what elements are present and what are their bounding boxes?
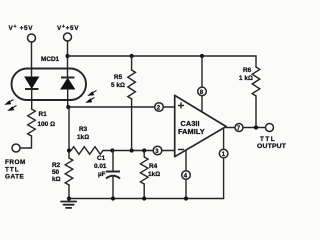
svg-text:R3: R3 bbox=[79, 126, 88, 133]
pin 8 bbox=[198, 87, 207, 96]
svg-text:GATE: GATE bbox=[5, 174, 25, 181]
svg-text:100 Ω: 100 Ω bbox=[38, 121, 55, 128]
pin 7 bbox=[235, 124, 243, 133]
svg-text:OUTPUT: OUTPUT bbox=[257, 143, 287, 150]
supply terminal V+ +5V (right) bbox=[57, 24, 79, 41]
pin 2 bbox=[155, 103, 164, 112]
node: R5 top rail junction bbox=[130, 54, 134, 58]
pin 7 output wire bbox=[226, 127, 265, 129]
pin 4 wire bbox=[185, 150, 187, 198]
node: R3 / C1 junction bbox=[110, 148, 114, 152]
resistor R2 bbox=[52, 158, 73, 185]
svg-text:MCD1: MCD1 bbox=[41, 56, 60, 63]
resistor R5 bbox=[111, 56, 135, 151]
pin 1 bbox=[219, 149, 228, 158]
ground bbox=[61, 199, 76, 208]
svg-text:V+ +5V: V+ +5V bbox=[9, 24, 34, 32]
resistor R6 bbox=[239, 67, 260, 128]
capacitor C1 bbox=[94, 151, 120, 199]
svg-text:0.01: 0.01 bbox=[94, 163, 107, 170]
node: R3 left junction bbox=[67, 148, 71, 152]
node: R4 bottom junction bbox=[142, 196, 146, 200]
pin 4 bbox=[182, 171, 191, 180]
supply terminal V+ +5V (left) bbox=[9, 24, 36, 42]
wire: R3 right lead to pin 3 line bbox=[103, 150, 112, 152]
wire: R2 bottom to ground rail bbox=[68, 185, 70, 199]
svg-text:R1: R1 bbox=[39, 111, 48, 118]
svg-text:C1: C1 bbox=[97, 155, 106, 162]
resistor R3 bbox=[71, 126, 103, 154]
node: photodiode / pin 2 junction bbox=[66, 105, 70, 109]
light arrows (right of package) bbox=[85, 91, 96, 103]
svg-text:50: 50 bbox=[52, 169, 60, 176]
input terminal FROM TTL GATE bbox=[5, 144, 26, 181]
svg-text:R5: R5 bbox=[114, 74, 123, 81]
wire: pin 3 line from C1 node to comparator bbox=[112, 150, 174, 152]
wire: right V+ terminal down to top rail junction and photodiode cathode bbox=[67, 41, 69, 72]
pin 3 bbox=[153, 146, 162, 155]
node: R2 / ground junction bbox=[67, 196, 71, 200]
light emission arrows (left of package) bbox=[4, 100, 16, 111]
svg-text:FAMILY: FAMILY bbox=[178, 127, 205, 136]
wire: top V+ rail to R6 bbox=[68, 56, 257, 67]
node: pin 4 bottom junction bbox=[184, 196, 188, 200]
svg-text:V++5V: V++5V bbox=[57, 24, 79, 32]
resistor R1 bbox=[28, 109, 55, 136]
svg-text:1 kΩ: 1 kΩ bbox=[239, 75, 253, 82]
node: R5 bottom junction bbox=[130, 148, 134, 152]
svg-text:1kΩ: 1kΩ bbox=[148, 171, 160, 178]
optocoupler MCD1 package bbox=[12, 56, 87, 100]
wire: LED cathode to R1 bbox=[31, 100, 33, 109]
svg-text:R2: R2 bbox=[52, 162, 61, 169]
svg-text:FROM: FROM bbox=[5, 159, 26, 166]
op-amp U1 CA311 family comparator bbox=[175, 95, 226, 156]
svg-text:R4: R4 bbox=[149, 163, 158, 170]
pin 8 wire bbox=[201, 56, 203, 112]
svg-text:µF: µF bbox=[98, 171, 106, 178]
svg-text:5 kΩ: 5 kΩ bbox=[111, 82, 125, 89]
wire: R1 bottom to input terminal bbox=[20, 136, 32, 148]
node: C1 bottom junction bbox=[111, 196, 115, 200]
node: R4 top junction bbox=[142, 148, 146, 152]
svg-text:TTL: TTL bbox=[5, 166, 20, 173]
wire: photodiode anode down to R2 (through pin-2 and R3 nodes) bbox=[68, 100, 69, 158]
node: R6 / output junction bbox=[254, 125, 258, 129]
svg-text:TTL: TTL bbox=[260, 136, 276, 143]
photodiode (MCD1 detector diode) bbox=[61, 72, 75, 100]
svg-text:kΩ: kΩ bbox=[52, 176, 61, 183]
output terminal TTL OUTPUT bbox=[257, 124, 287, 151]
resistor R4 bbox=[140, 151, 160, 199]
node: V+ rail junction bbox=[65, 54, 69, 58]
ground rail wire bbox=[69, 198, 224, 200]
node: pin 8 rail junction bbox=[200, 54, 204, 58]
LED (MCD1 emitter diode) bbox=[25, 72, 39, 100]
wire: left V+ terminal to LED anode bbox=[31, 42, 33, 72]
wire: pin 2 input wire to comparator bbox=[68, 106, 174, 108]
pin 1 wire bbox=[223, 128, 225, 198]
svg-text:R6: R6 bbox=[243, 67, 252, 74]
svg-text:1kΩ: 1kΩ bbox=[77, 134, 89, 141]
